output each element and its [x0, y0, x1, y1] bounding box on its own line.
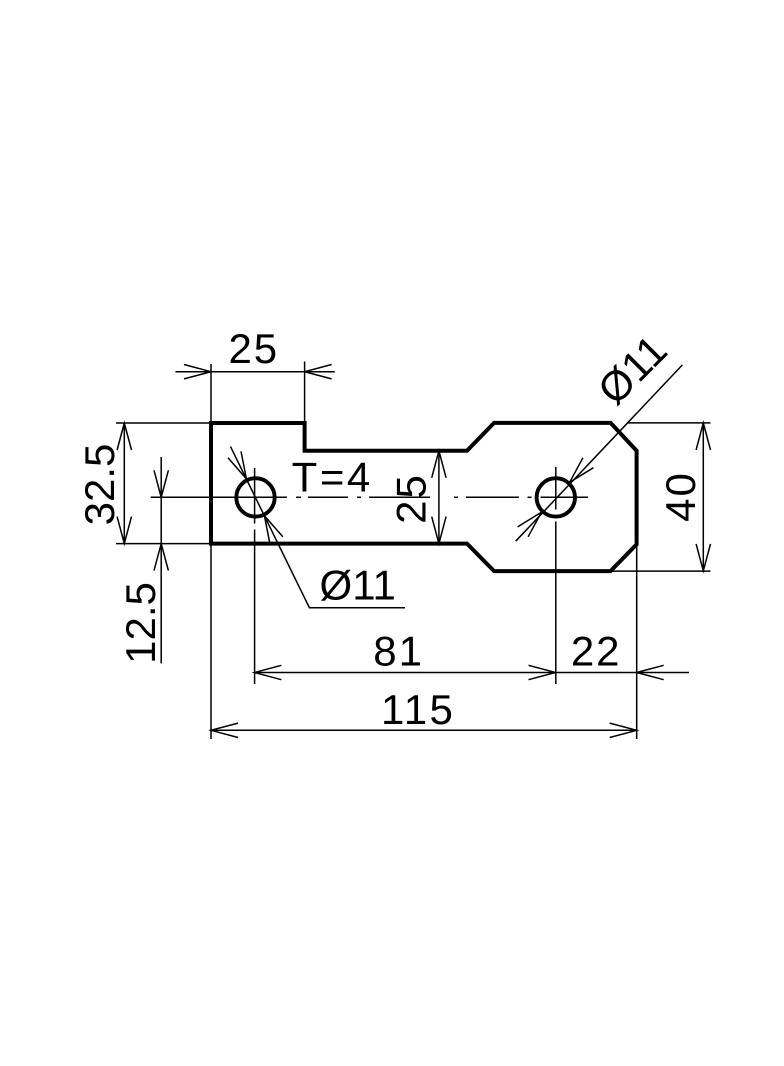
- leader hole H1 diameter: line: [231, 447, 406, 608]
- dimension 25 strip: line: [438, 451, 440, 544]
- centerline hole H2 vertical: [555, 467, 557, 510]
- leader hole H2: lower arrow: [518, 512, 542, 537]
- extension line step top: [304, 362, 306, 424]
- dimension 40: top arrow: [696, 423, 710, 450]
- dimension 12.5: top arrow: [154, 470, 168, 497]
- dimension 115: line: [211, 729, 637, 731]
- svg-text:115: 115: [381, 686, 455, 733]
- leader hole H1: lower arrow: [264, 516, 282, 544]
- svg-text:Ø11: Ø11: [320, 561, 396, 608]
- extension line 40 bottom: [612, 570, 711, 572]
- dimension 40: bottom arrow: [696, 544, 710, 571]
- svg-text:25: 25: [388, 473, 435, 524]
- extension line right edge bottom: [636, 544, 638, 739]
- dimension 32.5: top arrow: [117, 423, 131, 450]
- dimension 25 top: left arrow: [184, 365, 211, 379]
- dimension 81: right arrow: [529, 665, 556, 679]
- dimension 25 strip: top arrow: [432, 451, 446, 478]
- dimension 115: left arrow: [211, 723, 238, 737]
- dimension 25 strip: bottom arrow: [432, 517, 446, 544]
- svg-text:22: 22: [571, 627, 622, 674]
- centerline hole H1 vertical: [254, 468, 256, 524]
- hole H1: [236, 478, 274, 516]
- svg-text:32.5: 32.5: [76, 444, 123, 526]
- dimension 25 top: right arrow: [305, 365, 332, 379]
- svg-text:25: 25: [228, 325, 279, 372]
- extension line left edge top: [210, 364, 212, 423]
- svg-text:12.5: 12.5: [117, 582, 164, 664]
- svg-text:81: 81: [373, 628, 424, 675]
- leader hole H2 diameter: line: [516, 365, 683, 541]
- dimension 40: line: [702, 423, 704, 571]
- dimension 32.5: line: [123, 423, 125, 544]
- dimension 12.5: line: [160, 457, 162, 663]
- part outline: [211, 423, 637, 571]
- extension line 32.5 top: [116, 422, 211, 424]
- dimension 115: right arrow: [610, 723, 637, 737]
- dimension 25 top: line: [175, 371, 334, 373]
- extension line 32.5 bottom: [116, 543, 211, 545]
- dimension 12.5: bottom arrow: [154, 544, 168, 571]
- leader hole H2: upper arrow: [570, 458, 594, 483]
- extension line left edge bottom: [210, 544, 212, 739]
- centerline horizontal axis: [151, 496, 588, 498]
- dimension 22: right arrow: [637, 665, 664, 679]
- extension line 40 top: [628, 422, 711, 424]
- dimension 81: left arrow: [254, 665, 281, 679]
- leader hole H1: upper arrow: [228, 451, 246, 479]
- dimension 81-22: line: [254, 672, 689, 674]
- hole H2: [537, 478, 575, 516]
- svg-text:T=4: T=4: [292, 453, 373, 500]
- svg-text:40: 40: [657, 471, 704, 522]
- dimension 32.5: bottom arrow: [117, 517, 131, 544]
